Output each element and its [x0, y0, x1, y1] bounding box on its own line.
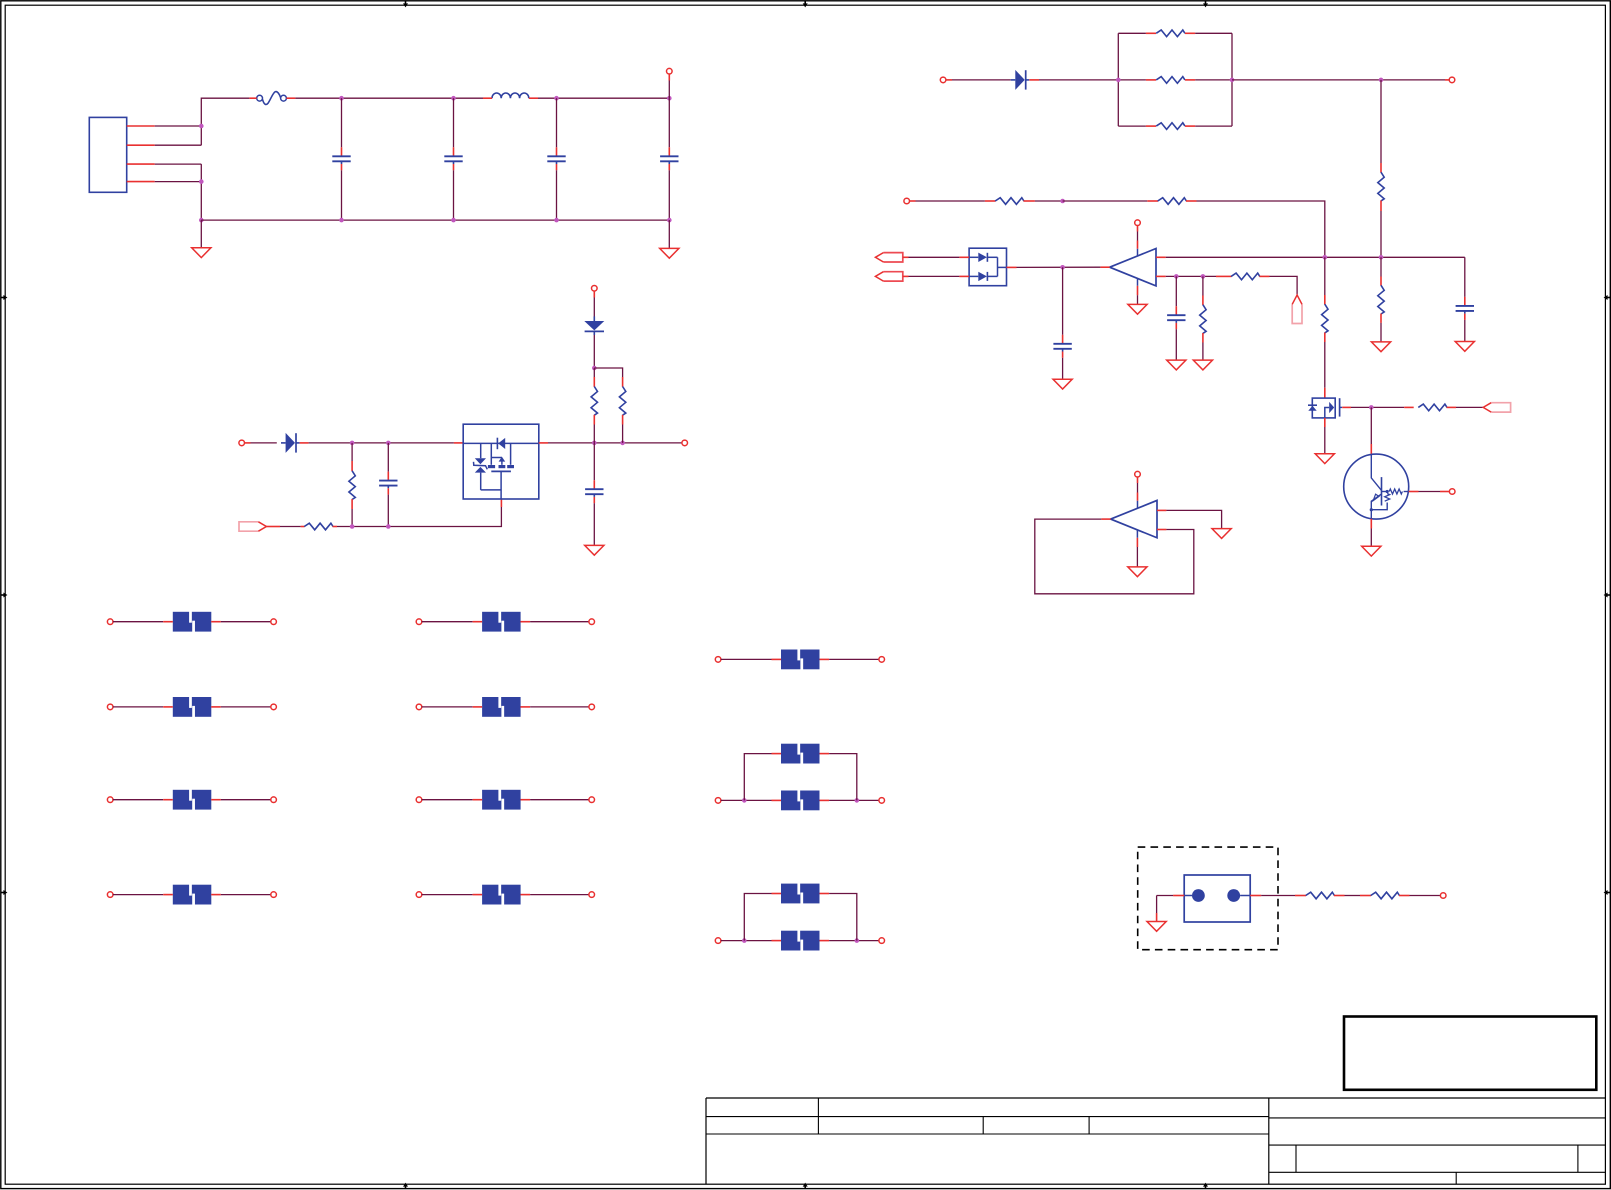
- op-amp U3 power lead: [1137, 501, 1139, 509]
- pin: [903, 256, 909, 258]
- terminal F4B: [271, 797, 277, 803]
- wire to ground: [1136, 547, 1138, 567]
- ground GND: [1371, 342, 1390, 352]
- wire to C4: [668, 98, 670, 147]
- wire gate rail: [1351, 406, 1404, 408]
- wire: [422, 621, 473, 623]
- pin: [286, 97, 295, 99]
- wire to terminal: [1232, 79, 1445, 81]
- wire: [952, 79, 1011, 81]
- terminal F5A: [107, 892, 113, 898]
- terminal F2B: [271, 619, 277, 625]
- pin gate: [500, 499, 502, 507]
- wire D2 to R3/R4: [593, 335, 595, 368]
- MOSFET Q2: [1308, 398, 1342, 418]
- wire top rail 2: [538, 97, 669, 99]
- wire: [1202, 343, 1204, 360]
- terminal V+: [1135, 220, 1141, 226]
- fuse F12a: [772, 930, 830, 951]
- wire C2 to bottom rail: [453, 170, 455, 220]
- pin X1.2: [1250, 895, 1261, 897]
- junction: [1379, 78, 1384, 83]
- pin: [1380, 201, 1382, 212]
- capacitor C2: [444, 147, 462, 170]
- op-amp U3: [1111, 500, 1157, 537]
- pin: [244, 442, 250, 444]
- U1 gate zener Z: [474, 443, 488, 490]
- pin: [593, 377, 595, 387]
- dual diode D4 diode A: [978, 253, 997, 262]
- wire Q2 to ground: [1324, 427, 1326, 454]
- wire: [155, 181, 202, 183]
- fuse F6: [473, 611, 530, 632]
- pin: [1202, 296, 1204, 306]
- jumper X1 body: [1184, 875, 1250, 922]
- capacitor C4: [660, 147, 678, 170]
- wire: [1380, 323, 1382, 342]
- pin: [483, 97, 492, 99]
- terminal F9A: [416, 892, 422, 898]
- pin: [300, 442, 309, 444]
- capacitor C3: [547, 147, 565, 170]
- junction: [339, 218, 344, 223]
- J1 pin 2: [127, 144, 155, 146]
- junction: [1323, 255, 1328, 260]
- pin: [351, 499, 353, 509]
- wire IN_B: [909, 275, 960, 277]
- junction: [554, 218, 559, 223]
- wire: [530, 894, 589, 896]
- pin: [1324, 333, 1326, 343]
- wire: [721, 799, 772, 801]
- wire: [1345, 895, 1361, 897]
- terminal F3B: [271, 704, 277, 710]
- U1 body diode: [497, 438, 505, 450]
- net label IN_B: [875, 272, 902, 281]
- pin: [1259, 275, 1269, 277]
- U1 MOSFET: [481, 443, 514, 499]
- U1 internal source-drain line: [463, 442, 539, 444]
- fuse F11b: [772, 743, 830, 764]
- wire: [155, 125, 202, 127]
- ground GND: [660, 248, 679, 258]
- pin: [668, 74, 670, 81]
- wire R15 to Q2: [1324, 342, 1326, 388]
- wire: [530, 799, 589, 801]
- wire F11 branch right: [829, 754, 857, 801]
- wire Q1 to ground: [1370, 529, 1372, 547]
- terminal F2A: [107, 619, 113, 625]
- wire F12 branch left: [744, 894, 771, 941]
- wire to R4: [594, 368, 622, 377]
- resistor R3: [591, 387, 597, 416]
- resistor R12: [1200, 305, 1206, 334]
- wire bottom rail: [201, 219, 669, 221]
- wire to C2: [453, 98, 455, 147]
- junction: [620, 441, 625, 446]
- J1 pin 3: [127, 163, 155, 165]
- digital transistor Q1: [1344, 454, 1409, 519]
- wire: [1137, 483, 1139, 493]
- junction: [855, 938, 860, 943]
- wire to ground: [1156, 896, 1158, 914]
- pin: [1185, 125, 1195, 127]
- pin: [622, 377, 624, 387]
- junction: [350, 441, 355, 446]
- resistor R17: [1306, 892, 1335, 899]
- pin: [1380, 163, 1382, 173]
- wire: [1035, 200, 1063, 202]
- wire to C6: [593, 443, 595, 480]
- wire to ground: [200, 220, 202, 248]
- pin: [593, 415, 595, 425]
- wire: [113, 706, 163, 708]
- pin: [1447, 406, 1456, 408]
- junction: [350, 524, 355, 529]
- wire rail A to R15: [1324, 257, 1326, 295]
- wire: [593, 425, 595, 443]
- pin in-: [1156, 275, 1166, 277]
- ground GND: [1128, 304, 1147, 314]
- pin: [333, 526, 337, 528]
- terminal F11A: [715, 798, 721, 804]
- junction: [1201, 274, 1206, 279]
- pin: [1185, 32, 1195, 34]
- capacitor C1: [332, 147, 350, 170]
- junction: [199, 179, 204, 184]
- pin: [529, 97, 538, 99]
- terminal F10B: [879, 657, 885, 663]
- pin: [1146, 79, 1156, 81]
- wire to ground: [668, 220, 670, 248]
- resistor R7: [1156, 123, 1185, 130]
- wire: [668, 81, 670, 99]
- pin: [1137, 225, 1139, 231]
- wire to ground: [1137, 295, 1139, 304]
- net label IN_A: [875, 253, 902, 262]
- connector J1: [89, 117, 126, 192]
- wire to shunt bank: [1039, 79, 1118, 81]
- terminal F8B: [589, 797, 595, 803]
- fuse F12b: [772, 883, 830, 904]
- dual diode D4 diode B: [978, 272, 997, 281]
- terminal V+: [1135, 471, 1141, 477]
- pin D4 out: [1007, 266, 1017, 268]
- resistor R16: [1418, 404, 1447, 411]
- wire: [221, 894, 271, 896]
- capacitor C5: [379, 472, 397, 495]
- pin: [1295, 895, 1306, 897]
- junction: [451, 218, 456, 223]
- terminal F12A: [715, 938, 721, 944]
- wire: [221, 799, 271, 801]
- resistor R18: [1371, 892, 1400, 899]
- terminal VBAT: [239, 440, 245, 446]
- junction: [386, 441, 391, 446]
- wire to R12: [1202, 276, 1204, 295]
- terminal F10A: [715, 657, 721, 663]
- wire to net label: [1456, 406, 1483, 408]
- dual diode D4 anode leads: [969, 257, 978, 276]
- wire to C8: [1175, 276, 1177, 306]
- pin: [1399, 895, 1410, 897]
- op-amp U2: [1110, 249, 1156, 286]
- pin: [1380, 314, 1382, 323]
- ground GND: [1193, 360, 1212, 370]
- junction: [742, 938, 747, 943]
- wire to FB label: [1270, 276, 1298, 294]
- junction: [592, 366, 597, 371]
- junction: [742, 798, 747, 803]
- terminal F6A: [416, 619, 422, 625]
- terminal F4A: [107, 797, 113, 803]
- resistor R10: [1231, 273, 1260, 280]
- pin: [1146, 32, 1156, 34]
- wire: [1157, 895, 1174, 897]
- terminal VIN: [667, 68, 673, 74]
- junction: [554, 96, 559, 101]
- pin Q2 gate: [1342, 406, 1351, 408]
- junction: [1060, 199, 1065, 204]
- diode D3: [1011, 70, 1030, 90]
- wire: [1195, 79, 1232, 81]
- wire F12 branch right: [829, 894, 857, 941]
- net label CTRL: [1483, 403, 1510, 412]
- fuse F10: [772, 649, 830, 670]
- ground GND: [1147, 922, 1166, 932]
- terminal F3A: [107, 704, 113, 710]
- op-amp U2 ground lead: [1137, 278, 1139, 286]
- pin: [1404, 406, 1414, 408]
- terminal F8A: [416, 797, 422, 803]
- revision box: [1344, 1017, 1596, 1090]
- pin Q1 pin1: [1409, 491, 1419, 493]
- terminal F9B: [589, 892, 595, 898]
- wire: [829, 799, 879, 801]
- pin: [622, 415, 624, 425]
- load switch U1 box: [463, 424, 539, 499]
- pin Q1 pin3: [1370, 444, 1372, 454]
- junction: [667, 218, 672, 223]
- wire to Q1: [1370, 407, 1372, 444]
- pin: [1380, 277, 1382, 286]
- terminal JOUT: [1440, 893, 1446, 899]
- wire: [1063, 200, 1148, 202]
- wire to C1: [341, 98, 343, 147]
- resistor R2: [304, 523, 333, 530]
- wire feedback loop: [1035, 519, 1194, 594]
- pin: [946, 79, 952, 81]
- wire rail B: [1166, 275, 1216, 277]
- wire: [422, 706, 473, 708]
- wire: [829, 658, 879, 660]
- fuse F4: [163, 789, 221, 810]
- pin Q2 source: [1324, 418, 1326, 427]
- resistor R13: [1378, 172, 1384, 201]
- terminal F12B: [879, 938, 885, 944]
- pin: [249, 97, 256, 99]
- wire C3 to bottom rail: [556, 170, 558, 220]
- terminal F6B: [589, 619, 595, 625]
- title block: [706, 1098, 1605, 1184]
- resistor R8: [995, 198, 1024, 205]
- pin: [1029, 79, 1039, 81]
- wire C9 to ground: [1464, 320, 1466, 341]
- terminal QOUT: [1449, 489, 1455, 495]
- pin: [1445, 79, 1449, 81]
- dual diode D4 common lead: [998, 257, 1007, 276]
- wire C1 to bottom rail: [341, 170, 343, 220]
- terminal F5B: [271, 892, 277, 898]
- wire top rail 1: [295, 97, 492, 99]
- pin: [959, 256, 969, 258]
- wire to R13: [1380, 80, 1382, 163]
- resistor R15: [1322, 304, 1328, 333]
- pin out: [1101, 518, 1110, 520]
- junction: [1116, 78, 1121, 83]
- wire: [251, 442, 277, 444]
- ground GND: [1053, 379, 1072, 389]
- junction: [1230, 78, 1235, 83]
- wire output rail: [1017, 266, 1101, 268]
- J1 pin 1: [127, 125, 155, 127]
- wire: [593, 298, 595, 317]
- wire: [280, 526, 301, 528]
- pin: [301, 526, 305, 528]
- wire: [155, 144, 202, 146]
- net label SHDN: [239, 522, 266, 531]
- pin Q1 pin2: [1370, 519, 1372, 529]
- wire: [1261, 895, 1295, 897]
- wire to load switch: [309, 442, 454, 444]
- ground GND: [1212, 529, 1231, 539]
- junction: [199, 218, 204, 223]
- diode D2: [584, 316, 604, 335]
- pin in-: [1157, 529, 1166, 531]
- pin in+: [1157, 509, 1166, 511]
- fuse F8: [473, 789, 530, 810]
- pin: [266, 526, 280, 528]
- junction: [592, 441, 597, 446]
- wire bank left rail: [1117, 33, 1119, 126]
- wire VIN- down: [200, 164, 202, 220]
- wire: [721, 658, 772, 660]
- wire C8 to ground: [1175, 329, 1177, 360]
- wire C6 to ground: [593, 503, 595, 545]
- ground GND: [1128, 567, 1147, 577]
- wire: [829, 940, 879, 942]
- junction: [1369, 405, 1374, 410]
- wire to R3: [593, 368, 595, 377]
- diode D1: [281, 433, 300, 453]
- resistor R14: [1378, 285, 1384, 314]
- wire to C5: [387, 443, 389, 472]
- pin: [1202, 333, 1204, 343]
- pin Q2 drain: [1324, 388, 1326, 398]
- junction: [1174, 274, 1179, 279]
- wire C4 to bottom rail: [668, 170, 670, 220]
- pin: [1185, 79, 1195, 81]
- wire gate rail: [337, 507, 501, 527]
- J1 pin 4: [127, 181, 155, 183]
- wire: [113, 799, 163, 801]
- wire: [530, 621, 589, 623]
- wire: [422, 894, 473, 896]
- wire: [1118, 79, 1146, 81]
- pin: [1137, 477, 1139, 483]
- terminal F7A: [416, 704, 422, 710]
- junction: [667, 96, 672, 101]
- resistor R5: [1156, 30, 1185, 37]
- wire VIN+ to fuse: [201, 98, 249, 145]
- junction: [451, 96, 456, 101]
- pin: [1156, 913, 1158, 921]
- wire: [1118, 32, 1146, 34]
- pin: [1147, 200, 1158, 202]
- wire bank right rail: [1231, 33, 1233, 126]
- terminal VOUT: [682, 440, 688, 446]
- wire to terminal: [1419, 491, 1441, 493]
- wire: [916, 200, 985, 202]
- pin: [903, 275, 909, 277]
- capacitor C8: [1167, 306, 1185, 329]
- wire to C9: [1464, 257, 1466, 297]
- terminal F7B: [589, 704, 595, 710]
- inductor L1: [492, 93, 529, 98]
- dashed enclosure: [1138, 847, 1278, 950]
- terminal F11B: [879, 798, 885, 804]
- resistor R6: [1156, 77, 1185, 84]
- wire: [1137, 232, 1139, 241]
- pin: [539, 442, 548, 444]
- terminal ISENSE: [1449, 77, 1455, 83]
- pin V-: [1136, 538, 1138, 547]
- wire to rail A: [1197, 201, 1325, 257]
- wire: [622, 425, 624, 443]
- pin: [1360, 895, 1371, 897]
- pin out: [1100, 266, 1109, 268]
- wire to C3: [556, 98, 558, 147]
- wire R1 to gate rail: [351, 509, 353, 527]
- terminal VREF: [904, 198, 910, 204]
- pin: [1146, 125, 1156, 127]
- fuse F1: [257, 92, 287, 105]
- jumper X1 leads: [1184, 895, 1250, 897]
- wire: [721, 940, 772, 942]
- wire rail A: [1166, 256, 1465, 258]
- capacitor C9: [1456, 297, 1474, 320]
- junction: [199, 124, 204, 129]
- wire F11 branch left: [744, 754, 771, 801]
- pin: [1324, 295, 1326, 305]
- fuse F11a: [772, 790, 830, 811]
- pin: [1440, 491, 1449, 493]
- fuse F3: [163, 697, 221, 718]
- wire switch output: [548, 442, 682, 444]
- jumper X1 pad 1: [1192, 889, 1205, 902]
- wire to C7: [1062, 267, 1064, 335]
- pin: [985, 200, 996, 202]
- pin: [1216, 275, 1231, 277]
- wire C7 to ground: [1062, 358, 1064, 379]
- wire IN_A: [909, 256, 960, 258]
- terminal VSENSE: [940, 77, 946, 83]
- resistor R4: [619, 387, 625, 416]
- junction: [1379, 255, 1384, 260]
- pin V-: [1137, 286, 1139, 295]
- fuse F9: [473, 884, 530, 905]
- pin V+: [1137, 241, 1139, 249]
